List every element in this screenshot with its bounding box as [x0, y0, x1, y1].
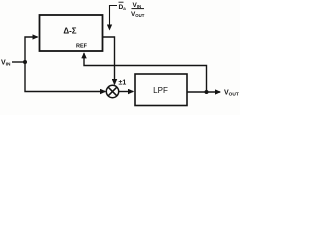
wire feedback VOUT node to REF input: [84, 53, 207, 92]
svg-text:LPF: LPF: [153, 86, 168, 95]
block U3 low-pass filter LPF: [135, 74, 187, 106]
wire node A up to delta-sigma input: [25, 37, 38, 62]
block U1 delta-sigma modulator: [40, 15, 103, 51]
wire VIN to node A: [12, 61, 25, 63]
wire node A down to multiplier left input: [25, 62, 105, 92]
svg-text:Da: Da: [119, 4, 127, 11]
multiplier U2: [106, 85, 118, 97]
svg-text:VOUT: VOUT: [131, 11, 145, 18]
node A junction dot: [23, 60, 27, 64]
svg-text:±1: ±1: [119, 80, 127, 87]
svg-text:Δ-Σ: Δ-Σ: [63, 27, 76, 36]
node B junction dot on output: [205, 90, 209, 94]
annotation leader arrow to bitstream wire: [110, 6, 118, 30]
wire multiplier output to LPF input: [119, 91, 134, 93]
wire delta-sigma output to multiplier top input: [103, 37, 115, 84]
wire LPF output to VOUT: [187, 91, 220, 93]
svg-text:REF: REF: [76, 44, 88, 50]
